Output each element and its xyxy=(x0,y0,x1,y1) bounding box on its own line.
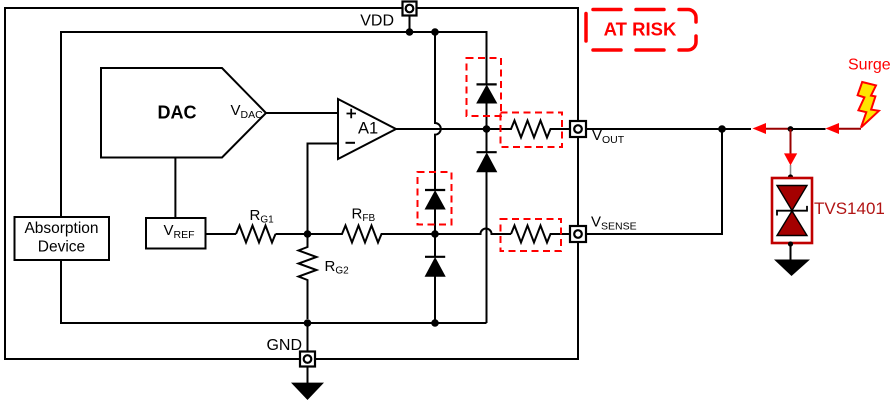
svg-text:A1: A1 xyxy=(358,120,378,138)
node TVS tap junction xyxy=(788,126,794,132)
wire vertical clamp branch x=435 with hop over A1 output xyxy=(435,32,441,190)
wire VOUT external xyxy=(586,128,752,130)
svg-text:GND: GND xyxy=(266,337,302,354)
wire VREF to RG1 xyxy=(206,233,237,235)
wire TVS to ground xyxy=(790,244,792,260)
pin GND (terminal square on bottom edge) xyxy=(300,352,315,367)
svg-text:DAC: DAC xyxy=(158,103,197,123)
wire DAC to VREF xyxy=(174,158,176,218)
wire VSENSE external loop to VOUT node xyxy=(586,129,723,234)
node VDD-rail junction 2 xyxy=(431,28,439,36)
node TVS top terminal xyxy=(788,174,793,179)
surge current arrow 2 (red, pointing left) xyxy=(826,123,862,134)
wire internal ground return (absorption device to clamp bottoms) xyxy=(61,260,487,323)
wire GND pin drop xyxy=(307,323,309,352)
svg-text:Surge: Surge xyxy=(848,57,891,74)
diode D3 clamp to VDD (middle column) xyxy=(425,190,445,234)
surge current arrow down to TVS (red) xyxy=(784,129,797,177)
wire VDD rail (y=32 from absorption branch to clamp branch) xyxy=(61,32,487,217)
red dashed box around D3 xyxy=(418,172,452,225)
diode D2 clamp to GND (output column) xyxy=(477,129,497,323)
node ground return junction at GND pin column xyxy=(304,319,312,327)
TVS1401 device xyxy=(772,178,812,243)
node VOUT-VSENSE tie junction xyxy=(718,125,726,133)
wire DAC output to A1 noninverting input xyxy=(266,112,338,114)
wire between surge arrows xyxy=(791,128,826,130)
pin VSENSE (terminal square on right edge) xyxy=(570,226,586,242)
node TVS bottom terminal xyxy=(788,241,793,246)
svg-text:TVS1401: TVS1401 xyxy=(814,199,885,218)
pin VDD (terminal square on top edge) xyxy=(403,2,417,16)
op-amp A1 xyxy=(338,99,396,159)
resistor RFB xyxy=(308,226,436,243)
node VDD-rail junction 1 xyxy=(406,28,414,36)
node ground return junction at clamp column xyxy=(431,319,439,327)
wire RG1 to feedback node xyxy=(276,233,308,235)
svg-text:VDD: VDD xyxy=(360,13,394,30)
node feedback junction xyxy=(304,230,312,238)
wire VSENSE inner trace with hop over vertical xyxy=(435,229,511,235)
block Absorption Device xyxy=(15,217,110,260)
svg-text:Absorption: Absorption xyxy=(24,220,98,237)
diode D1 clamp to VDD (output column) xyxy=(477,84,497,129)
pin VOUT (terminal square on right edge) xyxy=(570,121,586,137)
surge current arrow 1 (red, pointing left) xyxy=(753,123,791,134)
resistor series protection VSENSE xyxy=(511,226,571,243)
svg-text:Device: Device xyxy=(38,239,85,256)
DAC block xyxy=(101,68,266,158)
node A1 output junction xyxy=(483,125,491,133)
wire feedback node up to A1 inverting input xyxy=(308,144,339,235)
wire GND pin to ground symbol xyxy=(307,366,309,383)
red dashed box around D1 xyxy=(467,58,502,116)
ground symbol (chip GND) xyxy=(291,383,324,400)
resistor series protection VOUT xyxy=(487,121,571,138)
resistor RG1 xyxy=(236,226,276,243)
chip outline U (device boundary rectangle) xyxy=(5,8,578,359)
ground symbol (TVS) xyxy=(774,260,810,277)
node RFB to clamp junction xyxy=(431,230,439,238)
svg-text:AT RISK: AT RISK xyxy=(604,19,677,40)
AT RISK callout box xyxy=(586,10,696,51)
diode D4 clamp to GND (middle column) xyxy=(425,234,445,323)
wire A1 output to VOUT resistor xyxy=(396,128,487,130)
resistor RG2 xyxy=(299,234,317,319)
surge lightning bolt xyxy=(858,82,879,128)
wire VDD pin drop xyxy=(409,16,411,33)
red dashed box around VSENSE series resistor xyxy=(501,219,562,251)
block VREF xyxy=(146,218,206,249)
red dashed box around VOUT series resistor xyxy=(501,113,563,148)
